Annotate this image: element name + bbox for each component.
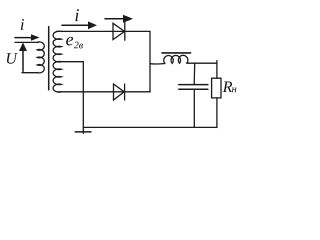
- wire capacitor bottom lead: [193, 90, 195, 128]
- primary current arrow: [15, 34, 40, 40]
- wire rail to inductor: [150, 63, 165, 66]
- voltage arrow U: [19, 43, 27, 72]
- wire primary top lead: [15, 41, 39, 43]
- wire center tap horizontal: [61, 61, 83, 63]
- wire secondary top to D1 and corner: [56, 30, 150, 32]
- label U: [7, 53, 18, 64]
- wire center tap vertical: [82, 62, 84, 134]
- transformer secondary winding: [53, 31, 61, 92]
- label i (primary current): [21, 19, 24, 30]
- inductor core line: [162, 52, 191, 54]
- wire secondary bottom to D2: [58, 91, 150, 93]
- wire primary bottom lead: [22, 72, 37, 74]
- diode D2: [114, 84, 125, 100]
- transformer core: [48, 27, 50, 90]
- diode D1: [113, 22, 125, 41]
- wire bottom rail: [83, 126, 217, 128]
- label Rн: [223, 82, 233, 92]
- wire load top lead: [216, 61, 218, 79]
- wire inductor to load: [187, 62, 217, 64]
- inductor L winding: [164, 55, 188, 63]
- center tap ground bar: [75, 131, 91, 133]
- current arrow above D1: [105, 15, 133, 23]
- capacitor C bottom plate: [179, 88, 208, 90]
- label i (secondary current): [75, 9, 78, 21]
- wire capacitor top lead: [193, 63, 196, 84]
- transformer primary winding: [37, 42, 44, 73]
- wire right vertical rail: [149, 31, 151, 91]
- resistor Rн: [212, 78, 221, 98]
- current arrow on top wire: [62, 21, 97, 29]
- capacitor C top plate: [179, 84, 208, 86]
- label e2в: [66, 37, 73, 46]
- wire load bottom lead: [216, 98, 218, 128]
